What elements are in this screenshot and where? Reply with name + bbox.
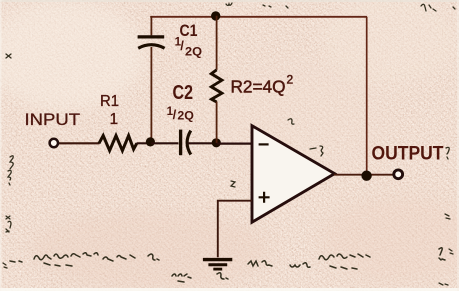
svg-text:C2: C2 <box>173 82 194 104</box>
label R1 value 1 <box>110 111 119 128</box>
capacitor C1 <box>138 37 165 48</box>
label INPUT <box>25 111 81 129</box>
svg-text:OUTPUT: OUTPUT <box>372 143 444 164</box>
svg-text:R1: R1 <box>100 93 119 110</box>
capacitor C2 <box>181 130 191 156</box>
wire input to R1 <box>59 142 100 144</box>
wire C2 to node B <box>188 142 218 144</box>
bottom scribble noise (decorative) <box>10 248 445 282</box>
wire R2 lower lead <box>216 102 218 143</box>
label C2 <box>173 82 194 104</box>
label R2 value R2=4Q2 <box>231 73 294 97</box>
wire node A to C2 <box>151 142 179 144</box>
svg-text:INPUT: INPUT <box>25 111 81 129</box>
wire non-inverting input <box>218 201 252 258</box>
wire output <box>334 174 394 176</box>
resistor R2 <box>211 70 222 102</box>
node output junction <box>361 171 371 181</box>
svg-text:/: / <box>173 107 177 122</box>
svg-text:/: / <box>180 38 184 53</box>
node B <box>212 138 221 147</box>
wire C1 upper lead <box>150 16 152 35</box>
label C2 value 1/2Q <box>167 106 194 123</box>
svg-text:2Q: 2Q <box>177 111 194 123</box>
svg-text:2: 2 <box>287 73 294 87</box>
wire R2 upper lead <box>216 16 218 70</box>
wire R1 to node A <box>137 142 152 144</box>
resistor R1 <box>99 136 137 151</box>
terminal input <box>50 139 58 147</box>
wire top feedback <box>150 16 367 18</box>
op-amp U1 <box>252 126 335 223</box>
wire node B to op-amp inverting input <box>217 142 253 144</box>
svg-text:R2=4Q: R2=4Q <box>231 77 286 97</box>
svg-text:1: 1 <box>110 111 119 128</box>
node top junction <box>211 11 220 20</box>
label OUTPUT <box>372 143 444 164</box>
label C1 value 1/2Q <box>175 36 202 58</box>
svg-text:2Q: 2Q <box>185 46 202 58</box>
label C1 <box>180 21 198 40</box>
ground <box>203 260 232 270</box>
wire right feedback <box>366 17 368 176</box>
terminal output <box>394 170 403 179</box>
wire C1 lower lead <box>150 47 152 143</box>
label R1 <box>100 93 119 110</box>
node A <box>146 137 155 146</box>
